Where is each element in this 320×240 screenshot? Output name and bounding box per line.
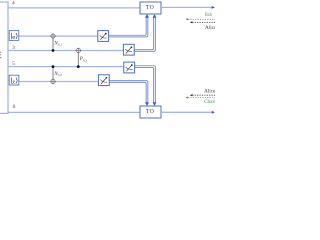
CNOT gate N31 (target on phi line, control on line 3) bbox=[50, 33, 56, 52]
CNOT gate N32 (control on line 5, target on chi line) bbox=[50, 65, 56, 84]
cropped text fragment at left edge bbox=[0, 52, 1, 59]
svg-text:Charlie: Charlie bbox=[204, 99, 215, 105]
classical wire M4 to TO2 with down arrow bbox=[135, 66, 156, 103]
svg-text:6: 6 bbox=[13, 104, 16, 110]
classical message arrow black from Alice (top) bbox=[190, 21, 215, 23]
arrowhead down into TO2 bbox=[145, 102, 149, 106]
svg-text:Alice: Alice bbox=[204, 89, 215, 95]
wire qubit line 6 bbox=[8, 111, 140, 113]
CNOT gate P31 (target on line 3, control on line 5) bbox=[75, 48, 81, 68]
arrowhead down into TO2 bbox=[153, 102, 157, 106]
wire line 6 output with arrowhead bbox=[161, 111, 215, 114]
measurement gate M1 on phi line bbox=[98, 31, 109, 42]
wire qubit line 4 bbox=[8, 7, 140, 9]
classical wire M3 to TO2 with down arrow bbox=[109, 81, 148, 103]
svg-text:3: 3 bbox=[12, 45, 15, 51]
classical wire M2 to TO1 with up arrow bbox=[134, 18, 155, 52]
classical wire M1 to TO1 with up arrow bbox=[109, 18, 148, 37]
arrowhead up into TO1 bbox=[153, 14, 157, 18]
svg-text:4: 4 bbox=[12, 0, 15, 6]
ket state |chi> box bbox=[9, 75, 19, 85]
measurement gate M2 on line 3 bbox=[123, 44, 134, 55]
svg-text:χ: χ bbox=[12, 79, 16, 85]
wire qubit line phi bbox=[19, 35, 98, 37]
TO box TO1 bbox=[140, 2, 161, 14]
classical message arrow green to Charlie circuit bbox=[185, 97, 215, 99]
classical message arrow black from Alice (bottom) bbox=[190, 94, 215, 96]
measurement gate M3 on chi line bbox=[98, 75, 109, 86]
ket state |phi> box bbox=[9, 31, 19, 41]
svg-text:Alice: Alice bbox=[205, 25, 215, 31]
wire qubit line chi bbox=[19, 81, 99, 83]
wire line 4 output with arrowhead bbox=[161, 6, 215, 9]
svg-text:φ: φ bbox=[12, 35, 15, 41]
wire qubit line 5 bbox=[8, 66, 124, 68]
svg-text:Bob: Bob bbox=[205, 12, 212, 18]
svg-text:TO: TO bbox=[146, 5, 154, 11]
measurement gate M4 on line 5 bbox=[124, 62, 135, 73]
wire left input bracket bbox=[0, 2, 8, 113]
wire qubit line 3 bbox=[8, 50, 123, 52]
arrowhead up into TO1 bbox=[145, 14, 149, 18]
TO box TO2 bbox=[140, 106, 161, 118]
svg-text:TO: TO bbox=[146, 109, 154, 115]
svg-text:5: 5 bbox=[12, 61, 15, 67]
classical message arrow green to Bob circuit bbox=[185, 18, 215, 20]
